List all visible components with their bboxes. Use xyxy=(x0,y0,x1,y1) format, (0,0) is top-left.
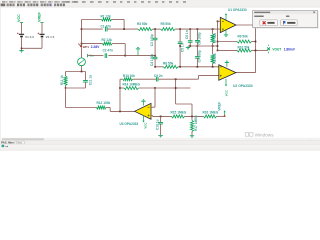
ground below batteries xyxy=(21,48,23,50)
svg-text:U1 OPA2333: U1 OPA2333 xyxy=(228,8,247,12)
main rail with C1 47n xyxy=(82,28,103,30)
wire: R2 to C2 vertical xyxy=(124,44,126,56)
resistor R16 1MEG xyxy=(204,115,217,118)
capacitor C10 1u to ground xyxy=(160,116,162,122)
svg-text:C10 1u: C10 1u xyxy=(155,120,159,130)
wire: feedback riser xyxy=(119,79,121,111)
wire: tap to C3/C4 midpoint xyxy=(125,55,155,57)
toolbar icons xyxy=(1,4,65,7)
svg-text:C9 2n: C9 2n xyxy=(154,74,163,78)
capacitor C9 2n (inline) xyxy=(155,77,157,82)
resistor R7 50k (vertical) xyxy=(212,29,214,34)
svg-text:R16 1MEG: R16 1MEG xyxy=(203,110,219,114)
resistor R12 100k xyxy=(66,107,97,109)
menu bar items xyxy=(2,1,186,3)
wire: RC top rail xyxy=(66,71,86,73)
svg-text:WP1: WP1 xyxy=(83,45,90,49)
resistor R15 1MEG xyxy=(172,115,185,118)
svg-text:R9 50k: R9 50k xyxy=(238,35,248,39)
capacitor C4 100p xyxy=(154,56,156,58)
battery V2 pin tick xyxy=(40,22,43,24)
probe WP1 xyxy=(78,44,81,47)
battery V1 stem wires xyxy=(21,23,23,34)
U1 VCC top stub xyxy=(225,15,227,20)
svg-text:V2 1.5: V2 1.5 xyxy=(46,35,55,39)
node dots on left vertical xyxy=(81,28,83,30)
wire: U3 + input to bottom rail xyxy=(151,114,153,116)
resistor R1 12k xyxy=(102,18,112,21)
svg-text:R5 50k: R5 50k xyxy=(161,22,171,26)
svg-text:R15 1MEG: R15 1MEG xyxy=(171,110,187,114)
svg-text:1.86mV: 1.86mV xyxy=(284,48,296,52)
resistor R5 50k xyxy=(161,28,176,31)
activate windows watermark xyxy=(245,133,248,137)
capacitor C7 100p xyxy=(196,46,198,57)
svg-text:R8 50k: R8 50k xyxy=(213,53,217,63)
capacitor C8 100p xyxy=(196,29,198,40)
U2 ground above xyxy=(226,62,228,66)
wire: U1 - input xyxy=(217,20,219,22)
wire: U3 - input to riser xyxy=(151,106,155,108)
wire: U1 output xyxy=(236,24,256,26)
svg-text:R12 100k: R12 100k xyxy=(97,101,111,105)
svg-text:R10 50k: R10 50k xyxy=(238,45,250,49)
svg-text:VREF: VREF xyxy=(38,11,42,22)
battery V1 pin tick xyxy=(20,22,23,24)
resistor R10 50k xyxy=(218,49,238,51)
capacitor C2 47n rail xyxy=(88,55,104,57)
resistor R3 50k xyxy=(138,28,153,31)
svg-text:R7 50k: R7 50k xyxy=(213,33,217,43)
capacitor C1 47n xyxy=(105,27,107,32)
svg-text:VOUT: VOUT xyxy=(272,48,281,52)
wire: descent to R12 rail xyxy=(65,88,67,108)
wire: down to U2 output xyxy=(255,41,257,43)
op-amp U3 xyxy=(135,103,152,119)
status bar xyxy=(0,144,320,147)
wire below generator xyxy=(81,66,83,72)
svg-text:U3 OPA2333: U3 OPA2333 xyxy=(120,122,139,126)
resistor R2 12k rail xyxy=(82,43,103,45)
horizontal scrollbar xyxy=(0,138,320,141)
capacitor C11 (vertical) xyxy=(85,72,87,81)
U3 ground (top supply) xyxy=(143,101,145,105)
svg-text:R1 12k: R1 12k xyxy=(101,15,111,19)
battery V2 stem wires xyxy=(41,23,43,34)
svg-text:R2 12k: R2 12k xyxy=(102,38,112,42)
probe attach mark xyxy=(80,45,82,47)
resistor R6 50k rail into U2 - input xyxy=(155,66,163,68)
wire joining battery bottoms xyxy=(22,47,43,49)
battery V2 symbol xyxy=(39,33,44,35)
capacitor C5 100p xyxy=(179,29,181,42)
svg-text:Windows: Windows xyxy=(255,132,275,137)
wire: U3 output rail xyxy=(110,110,134,112)
ground stub on tap rail xyxy=(137,49,139,56)
ground on mid rail xyxy=(187,46,189,48)
wire: bottom rail xyxy=(153,115,172,117)
svg-text:R11 1k: R11 1k xyxy=(60,75,64,85)
svg-text:C4 100p: C4 100p xyxy=(150,54,154,66)
svg-text:R13 10k: R13 10k xyxy=(123,74,135,78)
input pin Vin xyxy=(87,54,89,57)
U2 VCC below xyxy=(225,79,227,85)
resistor R9 50k xyxy=(218,41,238,43)
svg-text:U2 OPA2333: U2 OPA2333 xyxy=(233,84,253,88)
svg-text:C8 100p: C8 100p xyxy=(198,32,202,44)
svg-text:2.28V: 2.28V xyxy=(91,45,101,49)
svg-text:C7 100p: C7 100p xyxy=(198,50,202,62)
op-amp U2 xyxy=(219,65,236,81)
resistor R17 1MEG to ground xyxy=(191,116,193,120)
svg-text:C6 1n: C6 1n xyxy=(185,30,189,39)
wire: RC bottom rail xyxy=(66,87,86,89)
window chrome background xyxy=(0,0,320,7)
capacitor C6 1n xyxy=(189,29,191,41)
svg-text:C11 1u: C11 1u xyxy=(88,75,92,85)
sheet tab bar xyxy=(0,141,320,144)
svg-text:VCC: VCC xyxy=(224,90,228,96)
resistor R13 10k on upper feedback rail xyxy=(120,78,123,80)
wire: left vertical main xyxy=(81,20,83,58)
wire: jog down to U3 output rail xyxy=(109,108,111,112)
op-amp U1 xyxy=(220,17,236,32)
wire: R1 top rail xyxy=(82,19,102,21)
U1 ground below xyxy=(225,30,227,35)
svg-text:VCC: VCC xyxy=(144,123,148,129)
output pin VOUT xyxy=(256,49,269,51)
resistor R8 50k (vertical) xyxy=(212,46,214,54)
wire: jog up into U2 + input xyxy=(197,76,199,80)
svg-text:C1 47n: C1 47n xyxy=(101,24,111,28)
svg-text:R17 1MEG: R17 1MEG xyxy=(194,115,198,131)
svg-text:New: New xyxy=(16,140,23,144)
svg-text:C3 100p: C3 100p xyxy=(150,34,154,46)
wire: loop right vertical xyxy=(123,20,125,30)
svg-text:V1 3.3: V1 3.3 xyxy=(25,35,34,39)
svg-text:VCC: VCC xyxy=(17,14,21,22)
svg-text:VREF: VREF xyxy=(218,102,222,111)
jumper to VREF at rail end xyxy=(224,112,226,116)
resistor R14 10MEG on lower feedback rail xyxy=(120,87,124,89)
mid rail xyxy=(188,45,218,47)
svg-text:R3 50k: R3 50k xyxy=(137,22,147,26)
resistor R11 (vertical) xyxy=(65,72,67,77)
svg-text:C2 47n: C2 47n xyxy=(103,48,113,52)
svg-text:R14 10MEG: R14 10MEG xyxy=(123,83,141,87)
wire: U1 feedback vertical xyxy=(217,21,219,50)
svg-text:C5 1n: C5 1n xyxy=(180,43,184,52)
U3 VCC (bottom supply) xyxy=(143,116,145,121)
sine generator VG1 xyxy=(78,58,86,66)
simulation status dialog xyxy=(254,11,319,28)
svg-text:R6 50k: R6 50k xyxy=(163,62,173,66)
battery V1 symbol xyxy=(19,33,24,35)
capacitor C3 100p xyxy=(154,29,156,38)
